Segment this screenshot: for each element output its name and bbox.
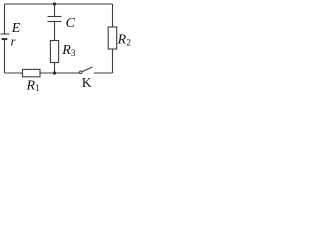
wire: middle branch from R3 down to bottom wire xyxy=(54,63,56,74)
background xyxy=(0,0,131,92)
capacitor C: top plate xyxy=(48,16,62,18)
switch K: blade xyxy=(82,67,93,72)
wire: bottom from switch right contact to bottom-right corner xyxy=(94,72,113,74)
wire: right, top segment from R2 up to top-right corner xyxy=(112,4,114,27)
svg-text:E: E xyxy=(11,21,21,36)
svg-text:K: K xyxy=(82,75,92,90)
node: junction dot bottom of middle branch xyxy=(53,71,56,74)
resistor R2 box xyxy=(108,27,117,49)
battery E,r: long plate xyxy=(1,33,10,35)
wire: left, top segment down to battery long plate xyxy=(4,4,6,34)
wire: right, bottom segment up to R2 xyxy=(112,49,114,73)
resistor R3 box xyxy=(50,41,58,63)
svg-text:3: 3 xyxy=(71,48,76,58)
svg-text:2: 2 xyxy=(126,38,130,48)
wire: middle branch from top wire down to capacitor xyxy=(54,4,56,17)
svg-text:C: C xyxy=(66,16,76,31)
svg-text:1: 1 xyxy=(35,83,40,92)
svg-text:R: R xyxy=(61,43,71,58)
svg-text:r: r xyxy=(11,35,16,49)
wire: middle branch from capacitor down to R3 xyxy=(54,22,56,41)
battery E,r: short thick plate xyxy=(2,38,8,40)
capacitor C: bottom plate xyxy=(48,21,62,23)
wire: left, bottom segment from battery down to bottom-left corner xyxy=(4,39,6,73)
svg-text:R: R xyxy=(26,79,36,93)
wire: top from left corner to right corner xyxy=(5,3,113,5)
node: junction dot where middle branch meets top wire xyxy=(53,2,56,5)
resistor R1 box xyxy=(23,69,41,76)
switch K: pivot contact circle xyxy=(80,71,83,74)
svg-text:R: R xyxy=(117,33,127,48)
wire: bottom-left from corner to resistor R1 xyxy=(5,72,23,74)
wire: bottom from R1 to switch contact xyxy=(40,72,80,74)
